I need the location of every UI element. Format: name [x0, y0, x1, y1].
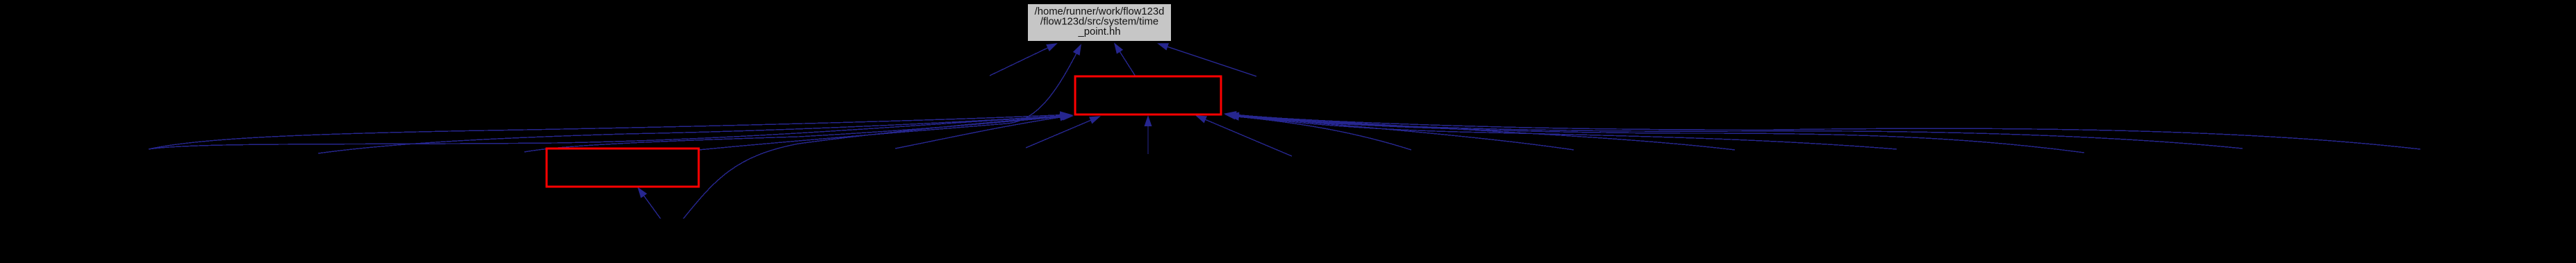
svg-text:_point.hh: _point.hh: [1078, 26, 1121, 37]
